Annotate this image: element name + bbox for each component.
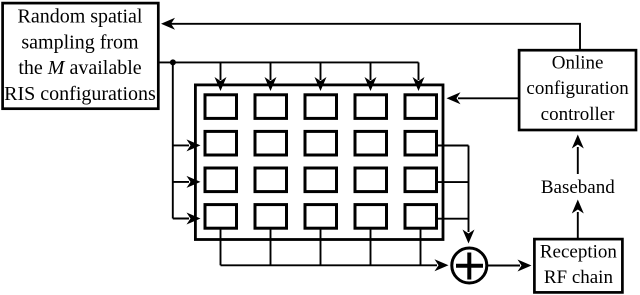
svg-text:Online: Online	[552, 52, 604, 73]
RIS element row3 col1	[205, 168, 237, 192]
RIS element row2 col4	[355, 131, 387, 155]
wire: column 5 bottom drop	[420, 230, 422, 266]
RIS element row2 col2	[255, 131, 287, 155]
wire: controller to panel right side	[447, 92, 520, 104]
wire: drop into column 4	[365, 62, 377, 91]
wire: baseband up to controller	[572, 135, 584, 175]
wire: adder to reception RF chain	[488, 260, 532, 272]
RIS element row3 col3	[305, 168, 337, 192]
RIS element row4 col2	[255, 205, 287, 229]
RIS element row4 col3	[305, 205, 337, 229]
RIS element row3 col2	[255, 168, 287, 192]
wire: column 4 bottom drop	[370, 230, 372, 266]
RIS element row1 col4	[355, 95, 387, 119]
wire: drop into column 5	[413, 62, 425, 91]
svg-text:controller: controller	[541, 104, 616, 125]
svg-text:RF chain: RF chain	[544, 267, 614, 288]
box U1: Random spatial sampling from the M available RIS configurations	[3, 3, 159, 109]
svg-text:RIS configurations: RIS configurations	[4, 83, 156, 105]
box U3: Reception RF chain	[534, 239, 622, 292]
wire: column 1 bottom drop	[220, 230, 222, 266]
RIS element row2 col3	[305, 131, 337, 155]
wire: branch into row 4	[173, 213, 201, 225]
RIS element row3 col5	[405, 168, 437, 192]
RIS panel outline	[195, 85, 443, 240]
svg-text:configuration: configuration	[526, 78, 629, 99]
wire: bus from sampling box to panel top	[158, 61, 419, 63]
wire: column 3 bottom drop	[320, 230, 322, 266]
svg-text:Baseband: Baseband	[541, 177, 615, 198]
wire: branch into row 2	[173, 139, 201, 151]
RIS element row4 col1	[205, 205, 237, 229]
RIS element row1 col3	[305, 95, 337, 119]
svg-text:sampling from: sampling from	[21, 31, 139, 53]
wire: bottom bus to adder	[221, 259, 449, 271]
wire: column 2 bottom drop	[270, 230, 272, 266]
wire: feedback from controller top to sampling box	[161, 18, 580, 51]
wire: left bus down from junction	[172, 62, 174, 218]
RIS element row3 col4	[355, 168, 387, 192]
adder: summation node	[452, 248, 487, 283]
RIS element row1 col2	[255, 95, 287, 119]
wire: collector down to adder	[463, 146, 475, 244]
RIS element row4 col4	[355, 205, 387, 229]
box U2: Online configuration controller	[519, 50, 636, 130]
wire: row 3 output to collector	[437, 181, 469, 183]
svg-text:the M available: the M available	[18, 57, 141, 79]
RIS element row1 col1	[205, 95, 237, 119]
node: junction dot	[170, 59, 176, 65]
wire: drop into column 1	[215, 62, 227, 91]
wire: branch into row 3	[173, 176, 201, 188]
wire: row 2 output to collector	[437, 145, 469, 147]
wire: drop into column 3	[315, 62, 327, 91]
RIS element row1 col5	[405, 95, 437, 119]
wire: row 4 output to collector	[437, 218, 469, 220]
svg-text:Reception: Reception	[540, 241, 618, 262]
RIS element row2 col1	[205, 131, 237, 155]
wire: drop into column 2	[265, 62, 277, 91]
svg-text:Random spatial: Random spatial	[18, 6, 143, 28]
RIS element row4 col5	[405, 205, 437, 229]
wire: reception RF chain up to baseband	[572, 200, 584, 241]
RIS element row2 col5	[405, 131, 437, 155]
